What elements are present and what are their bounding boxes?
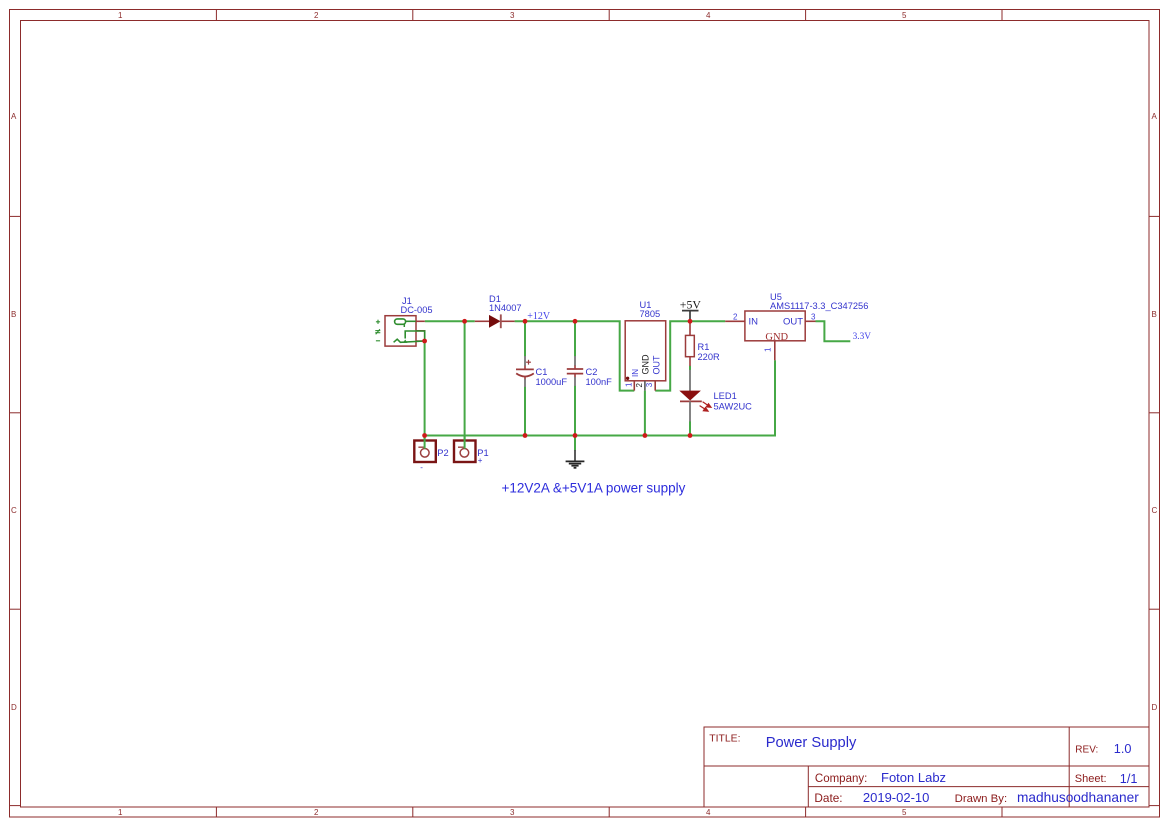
capacitor C2 100nF (567, 356, 612, 387)
svg-text:-: - (420, 463, 423, 472)
svg-text:DC-005: DC-005 (401, 305, 433, 315)
svg-text:OUT: OUT (651, 355, 661, 375)
wire P2 drop (424, 436, 426, 449)
regulator U1 7805 (624, 300, 665, 391)
svg-text:P2: P2 (437, 448, 448, 458)
svg-text:GND: GND (640, 354, 650, 375)
svg-text:D: D (11, 703, 17, 712)
wire vertical drop from top rail to bottom rail at x=464.6 (464, 321, 466, 435)
svg-text:2: 2 (635, 383, 644, 388)
wire P2 drop overlay (424, 436, 426, 449)
wire U1 GND pin to bottom rail (644, 391, 646, 436)
power flag +5V (680, 297, 702, 321)
pad P1 (454, 441, 489, 466)
junction dot top rail x=464.6 (462, 319, 467, 324)
svg-text:LED1: LED1 (714, 391, 737, 401)
wire C1 top lead (524, 321, 526, 356)
svg-text:1000uF: 1000uF (536, 377, 568, 387)
wire C1 bottom lead (524, 387, 526, 436)
svg-text:madhusoodhananer: madhusoodhananer (1017, 790, 1139, 805)
junction dot +5V x=690 (688, 319, 693, 324)
svg-text:3: 3 (510, 11, 515, 20)
svg-text:1: 1 (118, 808, 123, 817)
svg-text:AMS1117-3.3_C347256: AMS1117-3.3_C347256 (770, 301, 868, 311)
regulator U5 AMS1117-3.3 (725, 292, 868, 360)
svg-text:1N4007: 1N4007 (489, 303, 522, 313)
svg-text:Drawn By:: Drawn By: (955, 793, 1008, 805)
svg-text:C2: C2 (586, 367, 598, 377)
junction dot rail P2 (422, 433, 427, 438)
wire ground symbol drop (574, 436, 576, 451)
wire U1 out to +5V junction and U5 pin2 (655, 321, 725, 390)
svg-text:D: D (1152, 703, 1158, 712)
svg-text:Power Supply: Power Supply (766, 735, 857, 751)
wire R1 to LED link (689, 366, 691, 370)
svg-text:C1: C1 (536, 367, 548, 377)
svg-text:3: 3 (645, 382, 654, 387)
svg-text:Foton Labz: Foton Labz (881, 770, 946, 785)
LED1 5AW2UC (679, 370, 752, 422)
svg-text:R1: R1 (698, 342, 710, 352)
svg-text:+12V: +12V (527, 311, 551, 322)
junction dot +12V x=525 (523, 319, 528, 324)
svg-text:REV:: REV: (1075, 744, 1098, 755)
wire P1 drop (464, 436, 466, 449)
capacitor C1 1000uF (516, 356, 567, 387)
svg-text:100nF: 100nF (586, 377, 613, 387)
junction dot rail LED (688, 433, 693, 438)
wire LED cathode to bottom rail (689, 421, 691, 435)
wire J1 lower pins to bottom rail (424, 341, 426, 436)
svg-text:Date:: Date: (814, 791, 842, 805)
svg-text:1.0: 1.0 (1114, 742, 1132, 756)
svg-text:IN: IN (631, 369, 640, 377)
svg-text:1: 1 (764, 347, 773, 352)
svg-text:A: A (11, 112, 17, 121)
svg-text:2: 2 (733, 313, 738, 322)
svg-text:+: + (478, 456, 483, 465)
svg-text:4: 4 (706, 11, 711, 20)
junction dot rail C1 (523, 433, 528, 438)
junction dot C2 top x=575 (573, 319, 578, 324)
svg-text:2: 2 (314, 808, 319, 817)
svg-text:A: A (1152, 112, 1158, 121)
svg-text:B: B (11, 310, 16, 319)
svg-text:IN: IN (749, 317, 759, 328)
svg-text:TITLE:: TITLE: (709, 733, 740, 744)
svg-text:OUT: OUT (783, 317, 803, 328)
svg-text:1/1: 1/1 (1120, 772, 1138, 786)
svg-text:2: 2 (314, 11, 319, 20)
svg-text:+5V: +5V (680, 297, 702, 311)
svg-text:C: C (1152, 506, 1158, 515)
junction dot J1 lower (422, 339, 427, 344)
diode D1 1N4007 (475, 294, 522, 328)
svg-text:5: 5 (902, 808, 907, 817)
connector J1 DC-005 (375, 296, 432, 346)
svg-text:7805: 7805 (640, 309, 661, 319)
svg-text:4: 4 (706, 808, 711, 817)
wire main top rail J1 to D1 (425, 320, 475, 322)
svg-text:3: 3 (811, 313, 816, 322)
junction dot rail U1 gnd (643, 433, 648, 438)
svg-text:GND: GND (765, 332, 788, 343)
title block (704, 727, 1149, 807)
wire U5 pin3 to 3.3V (816, 321, 851, 341)
svg-text:1: 1 (118, 11, 123, 20)
svg-text:3.3V: 3.3V (853, 332, 872, 342)
pad P2 (414, 441, 448, 473)
svg-text:220R: 220R (698, 352, 721, 362)
svg-text:Sheet:: Sheet: (1075, 773, 1107, 785)
svg-text:1: 1 (624, 382, 633, 387)
wire D1 to U1 input corner (515, 321, 635, 390)
junction dot rail gnd (573, 433, 578, 438)
svg-text:5AW2UC: 5AW2UC (714, 402, 753, 412)
ground symbol (566, 450, 585, 468)
svg-text:3: 3 (510, 808, 515, 817)
svg-text:B: B (1152, 310, 1157, 319)
svg-text:2019-02-10: 2019-02-10 (863, 790, 930, 805)
wire bottom ground rail (425, 360, 775, 435)
svg-text:C: C (11, 506, 17, 515)
wire P1 drop overlay (464, 436, 466, 449)
wire C2 top lead (574, 321, 576, 356)
wire C2 bottom lead (574, 386, 576, 436)
svg-text:Company:: Company: (815, 773, 867, 785)
svg-text:+12V2A &+5V1A power supply: +12V2A &+5V1A power supply (502, 480, 686, 495)
resistor R1 220R (686, 321, 721, 366)
svg-text:5: 5 (902, 11, 907, 20)
